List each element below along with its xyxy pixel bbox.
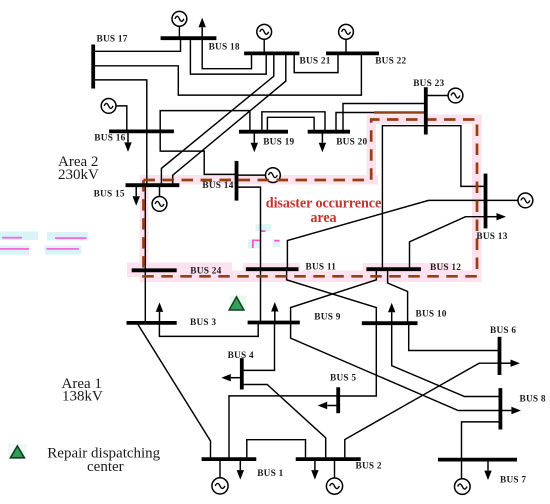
- disaster area glow behind bus 12: [363, 263, 452, 277]
- wire line 2-4: [242, 385, 326, 460]
- wire line 10-11: [287, 269, 377, 323]
- load arrow bus 7 load: [484, 460, 491, 481]
- svg-text:BUS 18: BUS 18: [209, 43, 240, 53]
- artifact cyan patch near line 9-11 right: [273, 239, 281, 247]
- disaster area glow top-right segment: [367, 115, 483, 125]
- svg-text:BUS 1: BUS 1: [257, 469, 283, 479]
- wire line 11-13: [287, 200, 485, 269]
- wire G22 stem: [345, 39, 347, 53]
- svg-text:BUS 15: BUS 15: [94, 190, 125, 200]
- svg-text:BUS 10: BUS 10: [416, 310, 447, 320]
- wire G16 stem: [116, 106, 127, 131]
- bus 20 bar: [308, 130, 350, 134]
- wire line 1-3: [137, 323, 211, 459]
- generator G18 (bus 18): [172, 11, 187, 26]
- bus 5 bar: [336, 387, 340, 413]
- wire line 1-2: [247, 440, 306, 459]
- disaster area glow left vertical: [140, 175, 149, 281]
- bus 13 bar: [484, 174, 488, 229]
- svg-text:BUS 9: BUS 9: [314, 312, 340, 322]
- bus 14 bar: [235, 161, 239, 201]
- text Repair dispatching center: [47, 445, 160, 475]
- svg-text:BUS 3: BUS 3: [190, 318, 216, 328]
- wire line 10-12: [388, 269, 408, 323]
- bus 12 bar: [366, 267, 421, 271]
- wire line 7-8: [462, 422, 501, 460]
- load arrow bus 10 load: [388, 303, 395, 324]
- wire G23 stem: [426, 95, 448, 97]
- artifact magenta dash near line 9-11 upper: [260, 230, 266, 232]
- svg-text:138kV: 138kV: [62, 389, 103, 405]
- damaged line overlay on 20-23: [374, 111, 425, 113]
- bus 15 bar: [126, 183, 180, 187]
- load arrow bus 20 load: [319, 132, 326, 153]
- artifact cyan patch near line 9-11 middle: [248, 240, 261, 249]
- svg-text:BUS 13: BUS 13: [476, 232, 507, 242]
- generator G21 (bus 21): [257, 24, 272, 39]
- artifact cyan strip 1: [0, 232, 38, 241]
- bus 9 bar: [248, 321, 300, 325]
- bus 1 bar: [202, 457, 257, 461]
- wire line 11-14 and 9-11: [237, 187, 261, 322]
- wire line 5-10: [338, 323, 376, 396]
- svg-text:BUS 4: BUS 4: [228, 351, 254, 361]
- svg-text:BUS 5: BUS 5: [330, 374, 356, 384]
- wire line 16-17: [93, 80, 147, 131]
- generator G14 (bus 14): [266, 168, 281, 183]
- generator G22 (bus 22): [339, 24, 354, 39]
- bus 23 bar: [424, 87, 428, 134]
- disaster area glow behind bus 11: [243, 263, 300, 277]
- bus 8 bar: [498, 388, 502, 429]
- text disaster occurrence area: [266, 195, 381, 226]
- artifact cyan strip 2: [47, 232, 88, 241]
- bus 3 bar: [127, 321, 177, 325]
- wire line 3-9: [159, 323, 258, 337]
- generator G2 (bus 2): [326, 478, 342, 494]
- svg-text:BUS 11: BUS 11: [306, 263, 337, 273]
- wire G13 stem: [486, 199, 519, 201]
- load arrow bus 9 load: [271, 302, 278, 323]
- artifact magenta dash 2: [55, 237, 87, 239]
- wire line 1-5: [229, 396, 338, 459]
- svg-text:BUS 8: BUS 8: [520, 395, 546, 405]
- bus 17 bar: [91, 45, 95, 89]
- wire line 9-12: [291, 269, 377, 322]
- svg-text:BUS 14: BUS 14: [202, 181, 233, 191]
- bus 16 bar: [109, 129, 174, 133]
- disaster area glow behind bus 24: [127, 263, 232, 278]
- load arrow bus 15 load: [133, 185, 140, 206]
- svg-text:BUS 19: BUS 19: [263, 137, 294, 147]
- wire line 17-18: [93, 40, 180, 51]
- artifact magenta dash 3: [0, 248, 29, 250]
- bus 10 bar: [362, 321, 418, 325]
- wire G21 stem: [263, 39, 265, 53]
- bus 11 bar: [246, 267, 299, 271]
- wire line 18-21 circuit 1: [202, 38, 251, 68]
- wire line 12-13: [410, 217, 486, 270]
- generator G15 (bus 15): [152, 197, 167, 212]
- load arrow bus 6 load: [500, 360, 521, 367]
- artifact cyan strip 3: [0, 246, 29, 255]
- svg-text:BUS 20: BUS 20: [336, 137, 367, 147]
- wire line 15-16: [146, 131, 148, 185]
- generator G13 (bus 13): [518, 193, 533, 208]
- load arrow bus 5 load: [318, 402, 339, 409]
- repair dispatching center marker (legend): [10, 446, 24, 458]
- generator G16 (bus 16): [101, 99, 116, 114]
- wire line 17-22: [93, 55, 361, 95]
- load arrow bus 13 load: [486, 213, 507, 220]
- bus 21 bar: [244, 52, 299, 56]
- disaster occurrence area dashed boundary: [144, 120, 478, 277]
- bus 4 bar: [240, 358, 244, 389]
- artifact cyan patch near line 9-11 upper: [256, 224, 272, 231]
- disaster area glow top-left segment: [141, 175, 378, 185]
- wire G2 stem: [334, 459, 336, 478]
- wire line 20-23 circuit 1: [336, 113, 426, 132]
- svg-text:disaster occurrence: disaster occurrence: [266, 195, 381, 211]
- wire G15 stem: [159, 185, 161, 196]
- load arrow bus 8 load: [500, 407, 521, 414]
- svg-text:area: area: [310, 210, 336, 226]
- load arrow bus 1 load: [237, 459, 244, 480]
- wire line 21-22: [294, 53, 338, 72]
- load arrow bus 18 load: [199, 18, 206, 39]
- bus 24 bar: [132, 268, 177, 272]
- wire G14 stem: [237, 174, 266, 176]
- bus 22 bar: [326, 52, 379, 56]
- svg-text:BUS 6: BUS 6: [490, 326, 516, 336]
- load arrow bus 16 load: [124, 131, 131, 152]
- load arrow bus 3 load: [156, 302, 163, 323]
- artifact magenta corner near line 9-11 middle: [253, 240, 262, 248]
- wire G7 stem: [461, 460, 463, 480]
- bus 2 bar: [296, 457, 361, 461]
- load arrow bus 19 load: [251, 132, 258, 153]
- wire line 15-24 and 3-24: [144, 185, 146, 323]
- wire line 19-20 circuit 2: [267, 117, 314, 131]
- artifact cyan patch behind legend triangle: [8, 444, 27, 459]
- svg-text:BUS 7: BUS 7: [500, 476, 526, 486]
- wire line 14-16: [160, 131, 236, 174]
- wire line 4-9: [242, 323, 275, 371]
- wire line 15-21 circuit 1: [161, 53, 273, 185]
- load arrow bus 2 load: [311, 459, 318, 480]
- bus 7 bar: [438, 458, 517, 462]
- svg-text:BUS 22: BUS 22: [375, 56, 406, 66]
- svg-text:BUS 24: BUS 24: [190, 267, 221, 277]
- wire G18 stem: [178, 26, 180, 38]
- artifact magenta dash 1: [2, 237, 22, 239]
- bus 19 bar: [239, 130, 288, 134]
- bus 6 bar: [498, 337, 502, 375]
- wire line 6-10: [409, 323, 500, 350]
- text Area 1 138kV: [62, 376, 104, 405]
- load arrow bus 4 load: [221, 374, 242, 381]
- generator G1 (bus 1): [212, 478, 228, 494]
- wire line 16-19: [160, 111, 250, 132]
- disaster area glow bottom segment: [140, 271, 482, 283]
- svg-text:BUS 2: BUS 2: [356, 462, 382, 472]
- bus 18 bar: [161, 36, 217, 40]
- disaster area glow right vertical: [472, 115, 482, 283]
- artifact magenta dash 4: [47, 248, 80, 250]
- wire line 15-21 circuit 2: [173, 53, 286, 185]
- wire line 12-23 and 13-23: [382, 126, 485, 270]
- svg-text:center: center: [87, 459, 124, 475]
- svg-text:230kV: 230kV: [58, 167, 99, 183]
- wire line 2-6: [345, 363, 500, 459]
- svg-text:BUS 12: BUS 12: [430, 263, 461, 273]
- svg-text:BUS 17: BUS 17: [97, 35, 128, 45]
- wire G1 stem: [219, 459, 221, 478]
- disaster area glow step vertical: [367, 115, 377, 185]
- artifact cyan strip 4: [45, 246, 82, 255]
- artifact magenta dash near line 9-11 right: [274, 240, 279, 242]
- cyan patch behind map marker: [230, 296, 246, 312]
- wire line 8-9: [291, 323, 501, 411]
- svg-text:BUS 23: BUS 23: [413, 79, 444, 89]
- svg-text:BUS 16: BUS 16: [94, 134, 125, 144]
- svg-text:BUS 21: BUS 21: [300, 56, 331, 66]
- wire line 18-21 circuit 2: [190, 38, 266, 74]
- repair dispatching center marker (map): [229, 297, 244, 310]
- wire line 19-20 circuit 1: [262, 112, 325, 132]
- wire line 8-10: [392, 323, 501, 396]
- generator G23 (bus 23): [448, 88, 463, 103]
- wire line 20-23 circuit 2: [343, 104, 426, 132]
- text Area 2 230kV: [58, 154, 99, 183]
- generator G7 (bus 7): [455, 479, 471, 495]
